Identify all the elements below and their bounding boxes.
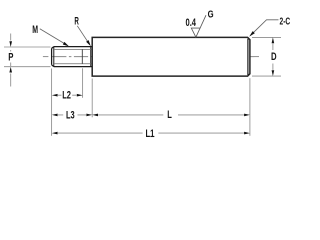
extension line at full-thread end	[82, 68, 84, 98]
svg-text:L1: L1	[146, 128, 155, 140]
centerline lead dash	[43, 56, 49, 58]
threaded stud	[52, 47, 92, 67]
svg-text:R: R	[74, 16, 79, 28]
dimension D	[252, 37, 281, 76]
dimension L2	[52, 90, 83, 102]
chamfer edge line right end	[247, 39, 249, 75]
dimension L3	[52, 109, 92, 121]
svg-text:2-C: 2-C	[280, 16, 291, 27]
full-thread end line	[81, 49, 83, 63]
extension line at shoulder	[91, 79, 93, 118]
svg-text:D: D	[271, 51, 277, 63]
svg-text:M: M	[32, 24, 38, 36]
dimension L1	[52, 128, 250, 140]
dimension L	[92, 109, 250, 121]
leader M	[40, 29, 69, 47]
leader R	[77, 26, 91, 46]
shaft main body	[92, 37, 250, 76]
thread chamfer line	[53, 47, 55, 67]
extension line at thread left end	[51, 69, 53, 136]
svg-text:G: G	[208, 9, 214, 20]
surface finish symbol	[191, 15, 206, 37]
extension line at body right end	[249, 78, 251, 136]
svg-text:L: L	[167, 109, 172, 121]
svg-text:L2: L2	[62, 90, 71, 102]
thread end face at shoulder	[90, 47, 92, 67]
leader 2-C	[249, 20, 278, 37]
svg-text:0.4: 0.4	[186, 17, 197, 29]
svg-text:P: P	[8, 51, 13, 63]
thread minor diameter lines	[55, 49, 92, 63]
svg-text:L3: L3	[66, 109, 75, 121]
centerline	[52, 56, 259, 58]
dimension P	[4, 34, 51, 87]
